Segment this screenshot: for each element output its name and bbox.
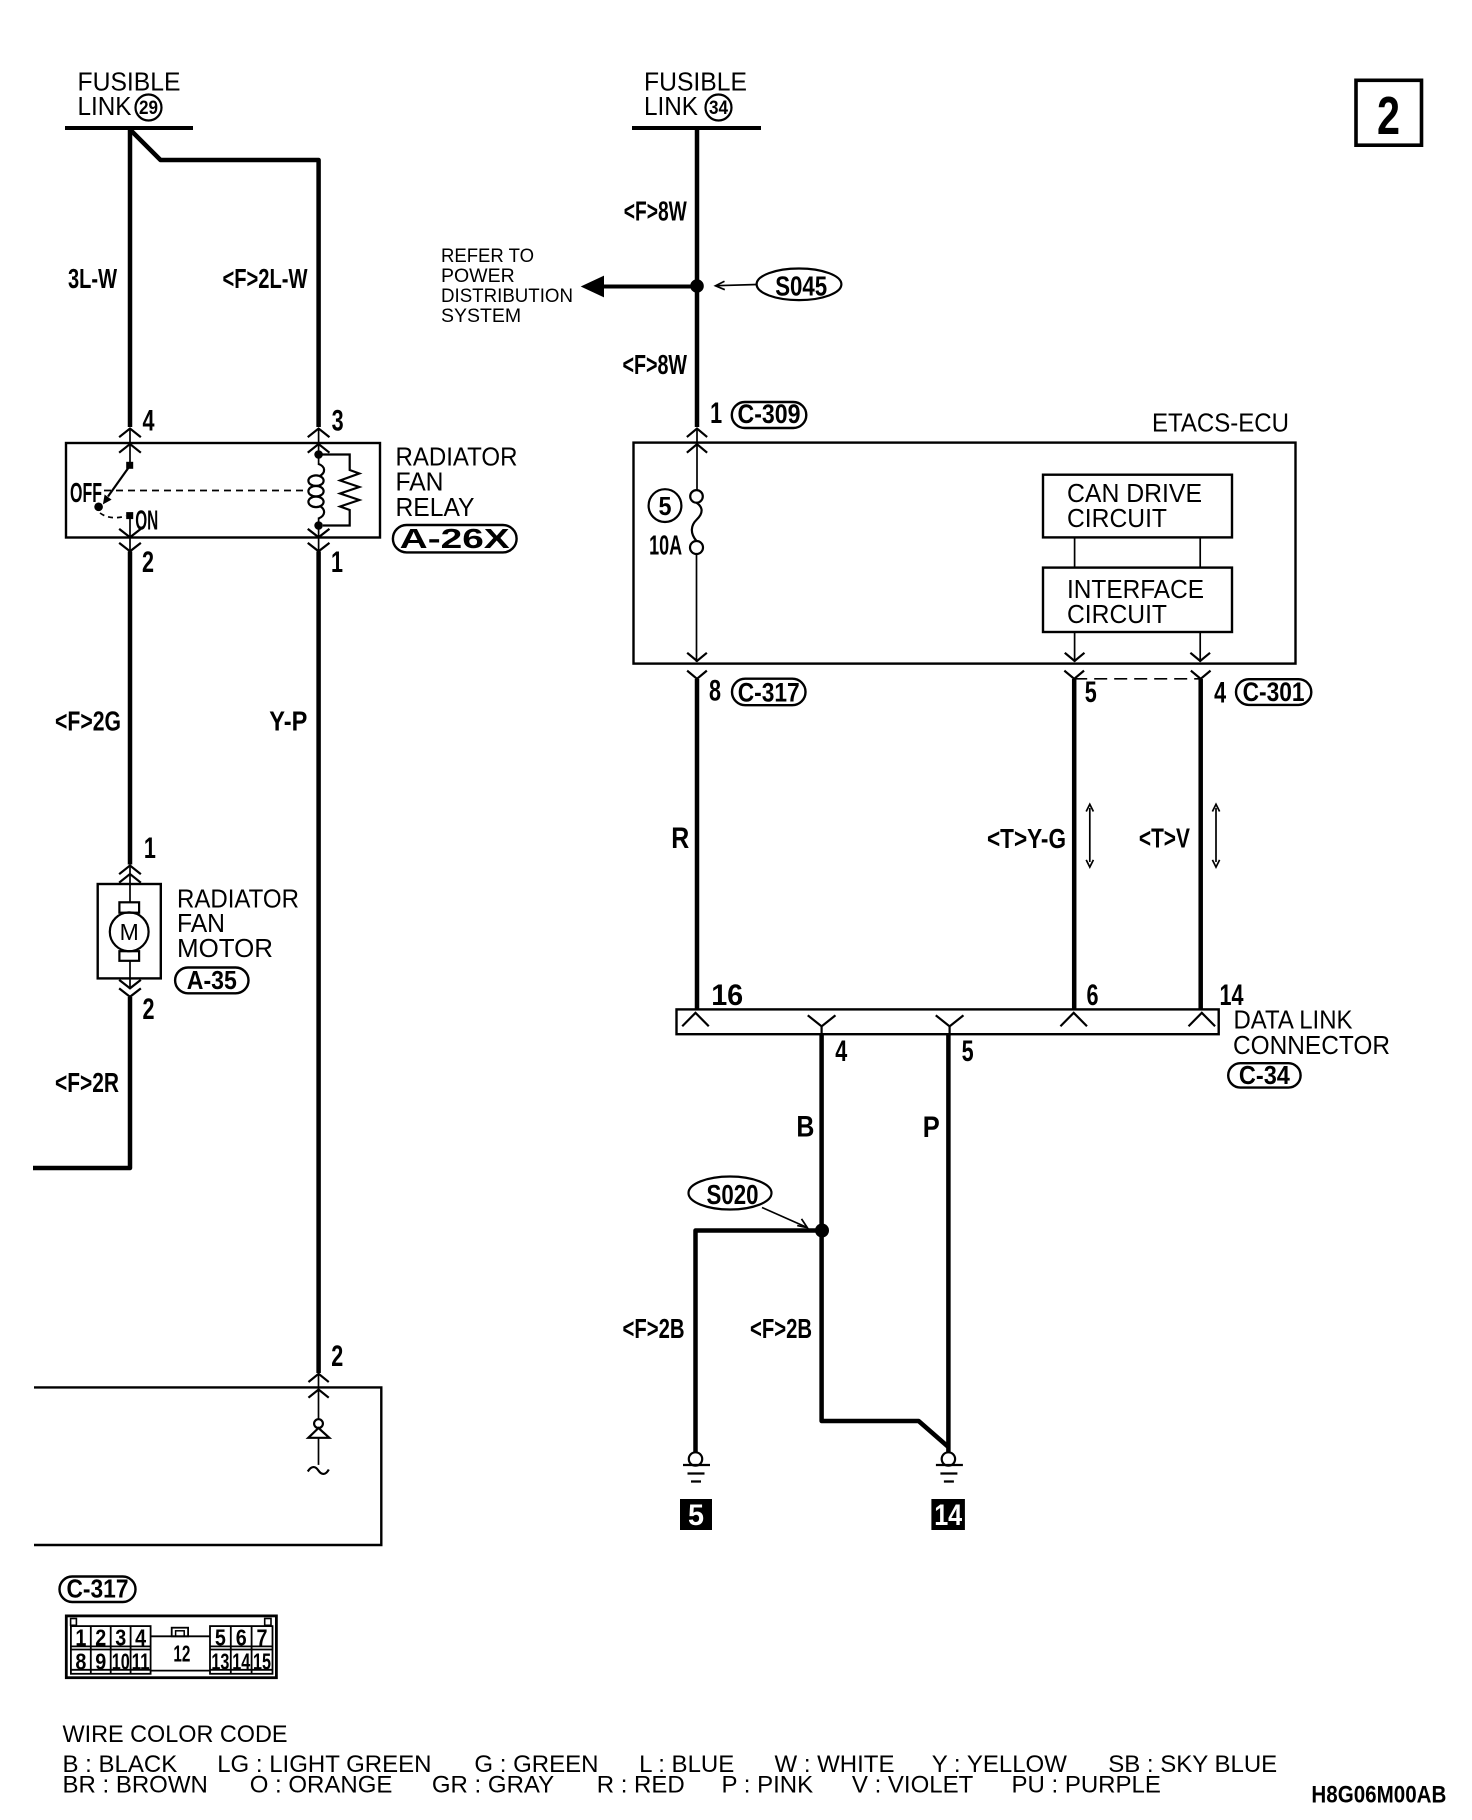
svg-text:3: 3 [115, 1624, 126, 1650]
radiator fan relay A-26X box [66, 443, 380, 538]
wire T V (pin4 to DLC pin14) [1198, 679, 1203, 1009]
relay switch common contact dot [126, 462, 133, 469]
wire F2B branch horizontal [696, 1231, 823, 1453]
svg-text:CIRCUIT: CIRCUIT [1067, 599, 1167, 629]
DLC pin14 chevron [1189, 1013, 1214, 1026]
svg-text:POWER: POWER [441, 265, 515, 287]
relay coil bottom node dot [314, 521, 323, 530]
svg-text:RELAY: RELAY [396, 492, 475, 522]
ground symbol 14 [936, 1452, 963, 1481]
svg-text:1: 1 [710, 397, 722, 430]
motor brush upper [119, 902, 139, 912]
motor pin2 internal lead [129, 961, 131, 987]
svg-text:10A: 10A [649, 530, 682, 561]
wire R (pin8 to DLC pin16) [695, 679, 700, 1009]
DLC pin6 chevron [1061, 1013, 1086, 1026]
svg-text:C-317: C-317 [67, 1574, 129, 1604]
svg-text:2: 2 [1377, 86, 1400, 146]
svg-text:<F>2B: <F>2B [623, 1313, 685, 1344]
relay switch throw dashed arc [100, 513, 126, 518]
connector tag C-317 (ETACS) [732, 678, 806, 708]
svg-text:A-35: A-35 [187, 965, 237, 995]
connector C-317 face drawing [66, 1616, 276, 1678]
svg-text:2: 2 [95, 1624, 106, 1650]
wire F2R (motor pin2 to left) [33, 997, 130, 1168]
svg-text:OFF: OFF [70, 477, 102, 508]
splice label S045 [757, 269, 842, 302]
relay resistor (parallel with coil) [322, 455, 359, 526]
connector chevrons motor pin 2 [120, 981, 140, 997]
interface to pin4 lead [1199, 632, 1201, 662]
svg-text:<T>V: <T>V [1139, 823, 1190, 854]
page number 2 box [1356, 80, 1422, 146]
connector chevrons bottom device pin 2 [309, 1374, 328, 1397]
interface circuit box [1043, 568, 1232, 632]
svg-text:10: 10 [112, 1648, 130, 1674]
relay switch arm (OFF position) [108, 467, 129, 497]
svg-text:15: 15 [253, 1648, 271, 1674]
svg-text:M: M [120, 919, 139, 945]
svg-text:29: 29 [139, 98, 158, 119]
svg-text:DISTRIBUTION: DISTRIBUTION [441, 285, 573, 307]
bottom device continuation squiggle [308, 1467, 329, 1474]
svg-text:P : PINK: P : PINK [722, 1772, 814, 1799]
svg-text:H8G06M00AB: H8G06M00AB [1311, 1782, 1446, 1809]
pin 5 exit chevron (below box) [1065, 671, 1083, 679]
bottom device internal lead upper [318, 1374, 320, 1419]
connector chevrons C-309 pin 1 [688, 429, 707, 453]
svg-text:CONNECTOR: CONNECTOR [1233, 1030, 1390, 1060]
connector chevrons pin 1 [309, 530, 329, 552]
radiator fan motor A-35 box [98, 884, 161, 978]
splice junction dot S020 [815, 1224, 829, 1238]
svg-text:1: 1 [75, 1624, 86, 1650]
wire 3L-W vertical [128, 128, 133, 427]
svg-text:CIRCUIT: CIRCUIT [1067, 503, 1167, 533]
connector chevrons motor pin 1 [120, 866, 140, 883]
wire CAN to interface right [1199, 537, 1201, 567]
wire color code row 2 [63, 1772, 1161, 1799]
pin 5 exit chevron (inside) [1066, 654, 1084, 662]
DLC pin16 chevron [683, 1013, 708, 1026]
svg-text:R : RED: R : RED [597, 1772, 685, 1799]
fusible link 34 bus bar [632, 126, 761, 130]
svg-text:13: 13 [211, 1648, 229, 1674]
fuse number circled 5 [649, 489, 682, 522]
DATA LINK CONNECTOR label [1233, 1005, 1390, 1061]
connector tag C-301 [1236, 677, 1311, 707]
svg-text:C-317: C-317 [738, 678, 800, 708]
svg-text:8: 8 [709, 675, 721, 708]
data link connector C-34 box [677, 1009, 1219, 1034]
RADIATOR FAN MOTOR label [177, 884, 299, 964]
svg-text:Y-P: Y-P [269, 706, 307, 737]
svg-text:BR : BROWN: BR : BROWN [63, 1772, 208, 1799]
svg-text:C-309: C-309 [738, 399, 801, 429]
RADIATOR FAN RELAY label [396, 442, 518, 523]
motor armature circle M [110, 912, 149, 951]
motor brush lower [119, 951, 139, 961]
fusible link 29 bus bar [65, 126, 193, 130]
relay actuation dashed line [104, 490, 304, 492]
svg-text:3L-W: 3L-W [68, 263, 117, 294]
wire CAN to interface left [1074, 537, 1076, 567]
CAN drive circuit box [1043, 475, 1232, 538]
svg-text:<F>2B: <F>2B [750, 1313, 812, 1344]
svg-text:<T>Y-G: <T>Y-G [987, 823, 1066, 854]
DLC pin5 Y-stub [937, 1016, 963, 1034]
fusible link 29 label [78, 67, 181, 122]
S045 pointer arrow [716, 281, 758, 289]
wire F2L-W branch segment [130, 130, 319, 428]
svg-text:<F>2G: <F>2G [55, 706, 121, 737]
connector chevrons pin 3 [309, 429, 329, 453]
svg-text:2: 2 [143, 993, 155, 1026]
wire F8W vertical [695, 128, 700, 427]
connector chevrons pin 2 [120, 530, 140, 552]
svg-text:34: 34 [709, 98, 728, 119]
svg-text:V : VIOLET: V : VIOLET [852, 1772, 974, 1799]
wire color code row 1 [63, 1751, 1278, 1778]
svg-text:6: 6 [1087, 979, 1099, 1012]
connector tag A-26X [393, 523, 517, 554]
svg-text:5: 5 [215, 1624, 226, 1650]
svg-text:C-301: C-301 [1243, 677, 1305, 707]
svg-text:MOTOR: MOTOR [177, 933, 273, 963]
svg-text:2: 2 [142, 546, 154, 579]
svg-text:<F>8W: <F>8W [623, 349, 688, 380]
svg-text:S020: S020 [707, 1179, 759, 1210]
relay coil L1 [308, 464, 324, 519]
svg-text:5: 5 [688, 1499, 704, 1532]
fuse 5 symbol [690, 490, 703, 554]
svg-text:14: 14 [232, 1648, 250, 1674]
svg-text:5: 5 [1085, 676, 1097, 709]
svg-text:REFER TO: REFER TO [441, 245, 534, 267]
ETACS internal lead from fuse to pin 8 [696, 554, 698, 662]
svg-text:6: 6 [236, 1624, 247, 1650]
svg-text:O : ORANGE: O : ORANGE [250, 1772, 393, 1799]
pin 8 exit chevron (inside) [688, 654, 706, 662]
svg-text:8: 8 [75, 1648, 86, 1674]
twisted pair dashed tie [1074, 678, 1201, 680]
bottom-left device box (partial) [34, 1387, 381, 1545]
bottom device internal lead lower [318, 1438, 320, 1465]
svg-text:1: 1 [331, 546, 343, 579]
REFER TO POWER DISTRIBUTION SYSTEM label [441, 245, 573, 327]
svg-text:<F>2L-W: <F>2L-W [223, 263, 308, 294]
connector tag C-309 [732, 399, 807, 429]
relay coil top node dot [314, 450, 323, 459]
svg-text:PU : PURPLE: PU : PURPLE [1012, 1772, 1161, 1799]
svg-text:4: 4 [143, 405, 155, 438]
wire T Y-G (pin5 to DLC pin6) [1072, 679, 1077, 1009]
svg-text:P: P [923, 1111, 940, 1144]
svg-text:9: 9 [95, 1648, 106, 1674]
svg-text:S045: S045 [775, 270, 827, 301]
svg-text:R: R [671, 822, 689, 855]
relay ON contact dot [126, 512, 133, 519]
svg-text:A-26X: A-26X [400, 523, 511, 554]
svg-text:11: 11 [132, 1648, 150, 1674]
connector tag A-35 [175, 965, 248, 995]
relay coil top lead [318, 429, 320, 466]
svg-text:5: 5 [659, 491, 672, 521]
svg-text:WIRE COLOR CODE: WIRE COLOR CODE [63, 1721, 288, 1748]
wire B (DLC pin4 down) [822, 1034, 949, 1447]
wire P (DLC pin5 down) [946, 1034, 951, 1452]
relay pin4 internal wire [129, 429, 131, 464]
ground symbol 5 [683, 1452, 710, 1481]
svg-text:2: 2 [331, 1340, 343, 1373]
svg-text:5: 5 [962, 1035, 974, 1068]
ETACS-ECU box [634, 443, 1296, 664]
connector tag C-317 (label) [60, 1574, 136, 1604]
svg-text:C-34: C-34 [1239, 1060, 1290, 1090]
svg-text:12: 12 [173, 1640, 190, 1666]
svg-text:1: 1 [144, 832, 156, 865]
svg-text:B: B [796, 1111, 814, 1144]
wire F2G (relay pin2 to motor) [128, 552, 133, 865]
wire Y-P (relay pin1 down) [316, 552, 321, 1374]
svg-text:14: 14 [934, 1499, 962, 1532]
splice junction dot S045 [690, 279, 704, 293]
ground number 5 (black box) [680, 1499, 712, 1532]
svg-text:16: 16 [711, 979, 743, 1012]
pin 4 exit chevron (inside) [1191, 654, 1209, 662]
svg-text:LINK: LINK [78, 91, 133, 121]
svg-text:4: 4 [135, 1624, 146, 1650]
svg-text:3: 3 [332, 405, 344, 438]
bottom device triangle symbol [308, 1428, 329, 1438]
refer to power distribution arrow [600, 285, 697, 289]
pin 8 exit chevron (below box) [688, 671, 706, 679]
S020 pointer arrow [762, 1208, 807, 1228]
svg-text:LINK: LINK [644, 91, 699, 121]
CAN bidirectional arrow left [1086, 804, 1093, 867]
relay OFF contact dot [94, 503, 103, 512]
CAN bidirectional arrow right [1212, 804, 1219, 867]
svg-text:7: 7 [257, 1624, 268, 1650]
svg-text:GR : GRAY: GR : GRAY [432, 1772, 554, 1799]
svg-text:4: 4 [835, 1035, 847, 1068]
DLC pin4 Y-stub [809, 1016, 835, 1034]
svg-text:<F>8W: <F>8W [624, 196, 687, 227]
svg-text:SYSTEM: SYSTEM [441, 305, 521, 327]
svg-text:4: 4 [1214, 677, 1226, 710]
motor pin1 internal lead [129, 866, 131, 902]
ETACS internal lead to fuse [696, 429, 698, 491]
svg-text:ETACS-ECU: ETACS-ECU [1152, 408, 1289, 438]
fusible link 34 label [644, 67, 747, 122]
ground number 14 (black box) [931, 1499, 965, 1532]
relay coil bottom lead [318, 518, 320, 552]
splice label S020 [689, 1177, 772, 1211]
svg-text:<F>2R: <F>2R [55, 1067, 119, 1098]
relay pin2 internal wire [129, 517, 131, 551]
pin 4 exit chevron (below box) [1192, 671, 1210, 679]
connector chevrons pin 4 [120, 429, 140, 453]
bottom device solenoid circle [314, 1419, 323, 1428]
connector tag C-34 [1228, 1060, 1300, 1090]
interface to pin5 lead [1074, 632, 1076, 662]
